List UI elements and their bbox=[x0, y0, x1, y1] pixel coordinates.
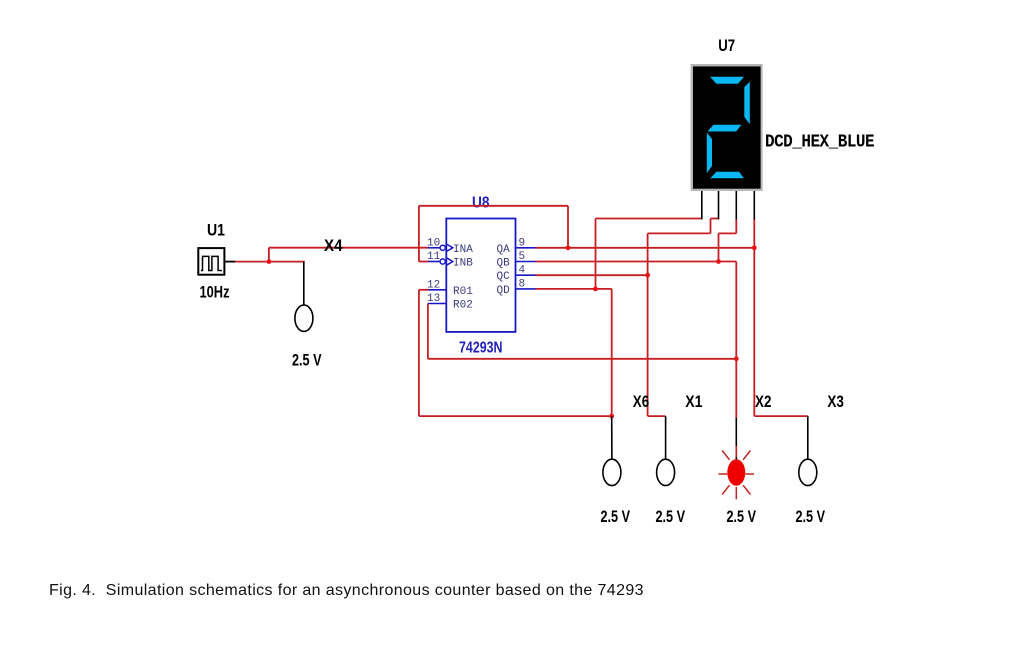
svg-text:QB: QB bbox=[497, 258, 511, 270]
clock source U1 bbox=[198, 248, 224, 275]
wire QD down bbox=[611, 289, 613, 416]
wire QD up to pin1 bbox=[595, 219, 597, 289]
svg-text:INB: INB bbox=[453, 258, 473, 270]
svg-text:4: 4 bbox=[519, 265, 526, 277]
svg-text:74293N: 74293N bbox=[459, 340, 503, 357]
svg-text:R01: R01 bbox=[453, 286, 473, 298]
svg-text:2.5 V: 2.5 V bbox=[656, 507, 686, 526]
probe X1 bbox=[657, 459, 675, 485]
probe X2 lit lamp bbox=[719, 446, 754, 499]
probe X3 bbox=[799, 459, 817, 485]
wire QC output run bbox=[536, 274, 648, 276]
pin 11 INB stub bbox=[428, 261, 440, 263]
svg-text:X4: X4 bbox=[324, 236, 343, 255]
wire QA feedback over bbox=[419, 205, 568, 207]
U1 output pin stub bbox=[224, 261, 236, 263]
pin 11 bubble bbox=[440, 259, 445, 264]
display pin 4 stub bbox=[753, 191, 755, 219]
svg-text:QD: QD bbox=[497, 285, 511, 297]
IC U8 74293N bbox=[446, 219, 515, 332]
svg-text:QC: QC bbox=[497, 271, 511, 283]
pin 12 R01 stub bbox=[428, 289, 446, 291]
svg-text:U8: U8 bbox=[472, 195, 490, 212]
svg-text:2.5 V: 2.5 V bbox=[796, 507, 826, 526]
segment B bbox=[744, 82, 750, 125]
wire QD bottom run to R01 bbox=[419, 415, 612, 417]
svg-text:2.5 V: 2.5 V bbox=[292, 351, 322, 370]
display pin 3 stub bbox=[735, 191, 737, 219]
display pin 2 stub bbox=[718, 191, 720, 219]
wire clock: junction up bbox=[268, 248, 270, 263]
probe X2 stub bbox=[735, 418, 737, 461]
wire display pin3 drop bbox=[735, 219, 737, 234]
segment D bbox=[710, 172, 744, 178]
svg-text:DCD_HEX_BLUE: DCD_HEX_BLUE bbox=[765, 131, 874, 153]
wire R01 up bbox=[418, 290, 420, 416]
svg-text:Fig. 4. Simulation schematics: Fig. 4. Simulation schematics for an asy… bbox=[49, 582, 644, 599]
junction QC bbox=[645, 273, 650, 278]
svg-text:2.5 V: 2.5 V bbox=[727, 507, 757, 526]
svg-text:13: 13 bbox=[427, 293, 440, 305]
wire QA output run bbox=[536, 247, 755, 249]
wire clock: U1 to junction bbox=[235, 261, 270, 263]
wire pin2 jog bbox=[711, 218, 719, 220]
probe X4 stub bbox=[303, 262, 305, 306]
pin 13 R02 stub bbox=[428, 303, 446, 305]
pin 8 QD stub bbox=[516, 288, 537, 290]
segment G bbox=[708, 125, 742, 132]
pin 10 bubble bbox=[440, 245, 445, 250]
wire display pin3 down to QB bbox=[718, 233, 720, 261]
svg-text:9: 9 bbox=[519, 237, 526, 249]
wire QA feedback down bbox=[418, 206, 420, 262]
pin 10 clock wedge bbox=[446, 244, 453, 252]
svg-text:12: 12 bbox=[427, 279, 440, 291]
wire R01 connect bbox=[419, 289, 429, 291]
wire QA feedback to INB bbox=[419, 261, 429, 263]
display pin 1 stub bbox=[701, 191, 703, 219]
svg-text:X1: X1 bbox=[685, 392, 702, 411]
svg-text:X3: X3 bbox=[827, 392, 844, 411]
junction QA-pin4 bbox=[752, 245, 757, 250]
wire QA display pin4 drop bbox=[753, 219, 755, 417]
wire R02 bottom run bbox=[428, 358, 736, 360]
svg-text:11: 11 bbox=[427, 251, 441, 263]
pin 11 clock wedge bbox=[446, 258, 453, 266]
wire QB output run bbox=[536, 261, 737, 263]
svg-text:U1: U1 bbox=[207, 221, 225, 240]
probe X6 bbox=[603, 459, 621, 485]
svg-text:QA: QA bbox=[497, 244, 511, 256]
svg-text:10: 10 bbox=[427, 237, 440, 249]
probe X1 stub bbox=[665, 416, 667, 460]
wire QB down to X2 bbox=[735, 262, 737, 419]
wire QC vertical bbox=[647, 233, 649, 416]
wire QA to X3 jog bbox=[754, 415, 808, 417]
svg-text:R02: R02 bbox=[453, 300, 473, 312]
wire QC top jog bbox=[648, 232, 711, 234]
probe X3 stub bbox=[807, 416, 809, 460]
segment A bbox=[710, 77, 744, 84]
wire pin2 drop bbox=[710, 219, 712, 234]
junction QD-X6 bbox=[609, 414, 614, 419]
segment E bbox=[707, 133, 712, 174]
probe X4 bbox=[295, 305, 313, 331]
wire QA feedback up bbox=[567, 206, 569, 248]
junction QD-pin1 bbox=[593, 287, 598, 292]
svg-text:INA: INA bbox=[453, 244, 473, 256]
junction QB-pin3 bbox=[716, 259, 721, 264]
junction clock node bbox=[267, 259, 272, 264]
svg-text:8: 8 bbox=[519, 278, 526, 290]
wire display pin3 jog bbox=[719, 232, 737, 234]
svg-text:10Hz: 10Hz bbox=[200, 283, 230, 302]
wire R02 down bbox=[427, 304, 429, 359]
wire pin1 run bbox=[596, 218, 702, 220]
svg-text:5: 5 bbox=[519, 251, 526, 263]
pin 4 QC stub bbox=[516, 274, 537, 276]
wire clock: to INA bbox=[269, 247, 429, 249]
svg-text:U7: U7 bbox=[718, 36, 735, 55]
pin 5 QB stub bbox=[516, 261, 537, 263]
wire QC to X1 jog bbox=[648, 415, 666, 417]
junction QB-R02 bbox=[734, 356, 739, 361]
probe X6 stub bbox=[611, 416, 613, 460]
junction QA-feedback bbox=[566, 245, 571, 250]
pin 10 INA stub bbox=[428, 247, 440, 249]
wire QD output run bbox=[536, 288, 612, 290]
svg-text:X2: X2 bbox=[755, 392, 771, 411]
seven segment display U7 bbox=[691, 64, 763, 191]
pin 9 QA stub bbox=[516, 247, 537, 249]
wire clock: junction to probe corner bbox=[269, 261, 305, 263]
svg-text:2.5 V: 2.5 V bbox=[601, 507, 631, 526]
svg-text:X6: X6 bbox=[633, 392, 649, 411]
